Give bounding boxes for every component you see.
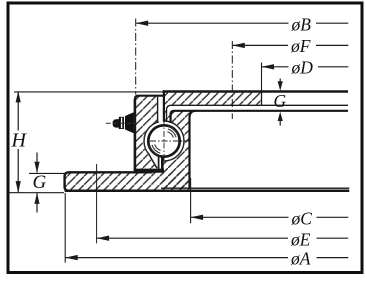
white funnel gap below-left of ball [149,154,159,168]
left G upper arrow [36,153,38,173]
hatch end vertical at oD [261,91,263,106]
svg-text:øD: øD [291,58,314,78]
bottom edge main line [65,190,350,193]
funnel edge below ball left [149,154,157,168]
oE extension [96,164,98,243]
oB dimension line [136,22,289,24]
hatch: inner ring lower body [162,111,190,189]
outer ring top-left rounded corner [135,96,138,100]
svg-text:øB: øB [291,14,312,34]
oD extension [261,63,263,91]
mid thick line with hook down to race [171,111,348,123]
svg-text:H: H [11,130,28,152]
flange bottom extension to left [9,192,65,194]
right G lower arrow [279,117,281,126]
oF extension dash-dot [231,41,233,119]
bottom second line right part [161,187,349,189]
right G upper arrow [279,79,281,87]
osculation arcs upper-right [167,126,178,137]
osculation arcs lower-left [149,144,160,155]
svg-text:øE: øE [290,230,311,250]
ball [148,125,179,156]
oD dimension line [262,66,289,68]
race clearance white annulus [143,120,185,162]
white slot below ball [159,154,161,169]
left G extension line [29,172,64,174]
oE dimension line [97,237,288,239]
oA dimension line [65,257,288,259]
slot left stem line [158,157,160,170]
oF dimension line [232,44,288,46]
ball center line vertical [163,120,165,163]
oA extension [64,193,66,263]
svg-text:G: G [33,172,47,193]
svg-text:øA: øA [290,249,311,269]
white gap between rings above ball [159,97,163,123]
left G lower arrow [36,193,38,212]
inner ring plate top edge [163,90,348,92]
oC dimension line [191,216,289,218]
ball center line horizontal [150,140,191,142]
bore thin line with hook down to race [167,105,349,122]
nipple center line [106,122,138,124]
oB extension dash-dot [135,19,137,95]
hatch: outer ring body [134,96,158,173]
grease nipple mid section [119,117,124,129]
svg-text:G: G [274,91,287,111]
grease nipple head [113,119,120,127]
white slit between bell and hex [124,116,125,131]
grease nipple bell [125,112,134,133]
oC extension [190,178,192,223]
svg-text:øF: øF [290,36,311,56]
H dimension line lower part [17,149,19,192]
flange top edge and rounded left end [65,172,153,191]
outer ring top edge [138,95,165,97]
svg-text:øC: øC [291,209,313,229]
raceway outline [144,121,184,161]
hatch: bottom flange [65,173,190,191]
hatch: inner ring top plate [164,91,262,105]
plate left step edge down to race [163,90,165,121]
outer ring left edge [134,99,137,172]
H dimension line upper part [17,92,19,131]
inner ring right edge with top fillet [190,111,197,188]
H top extension line [14,91,163,93]
outer ring right edge above ball [157,97,159,123]
outer ring bottom edge bar [135,169,164,173]
slot right stem line [161,157,164,170]
